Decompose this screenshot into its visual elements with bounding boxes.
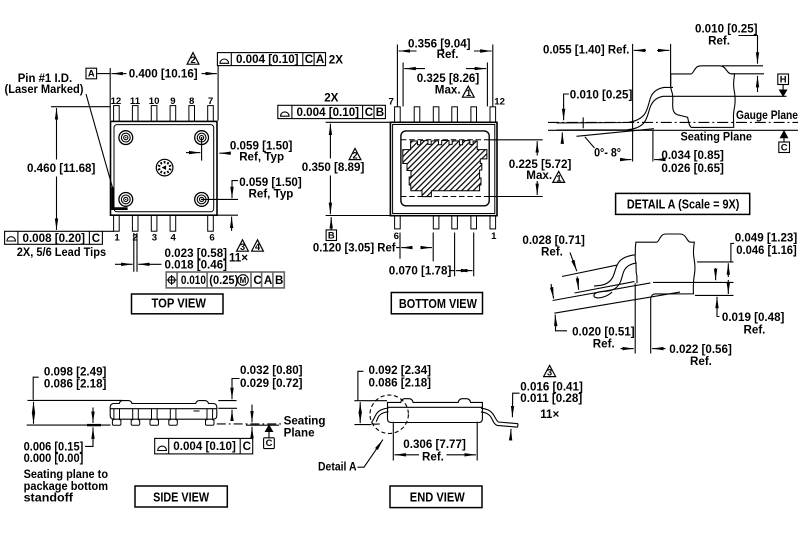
- svg-text:Detail A: Detail A: [318, 461, 357, 474]
- dim 0.325: extension lines: [403, 63, 487, 107]
- dim 0.356: extension lines: [397, 45, 492, 107]
- side view top extension line left: [28, 399, 124, 401]
- svg-text:2: 2: [352, 151, 357, 161]
- FCF position tolerance frame: [166, 272, 284, 288]
- svg-text:2X: 2X: [329, 53, 343, 66]
- svg-text:1: 1: [114, 233, 120, 244]
- top view body outline: [111, 121, 218, 215]
- hatched die cavity blob: [403, 141, 487, 197]
- svg-text:A: A: [88, 68, 95, 79]
- svg-text:0.049 [1.23]: 0.049 [1.23]: [735, 231, 798, 244]
- svg-text:M: M: [240, 276, 247, 285]
- svg-text:0.000 [0.00]: 0.000 [0.00]: [24, 452, 84, 465]
- 0.098/0.086 bracket: [33, 377, 39, 399]
- leader from laser marked text to pin1 corner: [86, 94, 113, 189]
- top view inner rounded outline: [114, 125, 214, 212]
- svg-text:SIDE VIEW: SIDE VIEW: [153, 490, 209, 504]
- dim 0.010 gauge-seating: bracket: [564, 94, 569, 106]
- 0.028 dim arrows: [577, 277, 578, 290]
- bottom pins row (1,2,3,4,6): [114, 215, 214, 231]
- svg-text:3: 3: [152, 233, 157, 244]
- svg-text:0°- 8°: 0°- 8°: [594, 146, 621, 159]
- second detail gull lead lower line: [602, 263, 637, 292]
- detail A lead upper surface: [557, 87, 673, 123]
- svg-text:Seating plane to: Seating plane to: [24, 468, 108, 481]
- svg-text:DETAIL A (Scale = 9X): DETAIL A (Scale = 9X): [627, 198, 740, 212]
- svg-text:C: C: [92, 232, 101, 245]
- svg-text:0.098 [2.49]: 0.098 [2.49]: [44, 365, 107, 378]
- svg-text:C: C: [781, 141, 788, 152]
- datum A box: [86, 68, 97, 79]
- detail A body outline: [671, 66, 735, 128]
- svg-text:C: C: [243, 440, 252, 453]
- svg-text:10: 10: [149, 96, 160, 107]
- svg-text:6: 6: [209, 233, 214, 244]
- end view body outline: [388, 399, 483, 423]
- mounting circle top-right: [195, 131, 209, 145]
- second detail body outline: [635, 234, 695, 298]
- end view left lead: [372, 408, 389, 424]
- dim lead width 0.023/0.018: extension lines: [115, 233, 162, 272]
- svg-text:7: 7: [389, 97, 394, 108]
- svg-text:6: 6: [394, 231, 399, 242]
- svg-text:2X, 5/6 Lead Tips: 2X, 5/6 Lead Tips: [17, 246, 106, 259]
- svg-text:0.018 [0.46]: 0.018 [0.46]: [165, 258, 228, 271]
- svg-text:Ref.: Ref.: [744, 324, 766, 337]
- svg-text:0.070 [1.78]: 0.070 [1.78]: [389, 265, 452, 278]
- second detail foot loop: [594, 292, 612, 298]
- 0.020 dim arrows: [551, 284, 554, 299]
- Detail A callout leader: [358, 440, 383, 468]
- flag note 1 (0.225): [553, 171, 565, 182]
- svg-text:A: A: [316, 53, 325, 66]
- 0.028 dim leader: [570, 253, 577, 272]
- second detail vertical lead: [634, 283, 636, 353]
- dim 0.070: extension lines: [449, 233, 474, 277]
- gauge plane dash-dot line: [548, 121, 798, 123]
- pin numbers top: [111, 96, 214, 107]
- svg-text:7: 7: [208, 96, 213, 107]
- position symbol: [167, 275, 249, 286]
- svg-text:0.350 [8.89]: 0.350 [8.89]: [302, 161, 365, 174]
- svg-text:(0.25): (0.25): [209, 274, 238, 287]
- svg-text:TOP VIEW: TOP VIEW: [151, 297, 206, 311]
- dim 0.460 dimension line with arrows: [56, 108, 58, 159]
- right ext line C: [695, 294, 734, 296]
- dim 0.055: extension lines: [632, 44, 634, 162]
- svg-text:standoff: standoff: [24, 492, 74, 505]
- flag note 2 (top view): [187, 53, 199, 65]
- svg-text:11: 11: [130, 96, 141, 107]
- svg-text:11×: 11×: [540, 408, 559, 421]
- svg-text:B: B: [376, 106, 384, 119]
- svg-text:8: 8: [189, 96, 195, 107]
- svg-text:Ref.: Ref.: [690, 355, 712, 368]
- mounting circle top-left: [119, 131, 133, 145]
- svg-text:0.029 [0.72]: 0.029 [0.72]: [240, 377, 303, 390]
- 0.032/0.029 ext lines right: [218, 400, 236, 402]
- FCF left: frame (0.004 C B): [278, 105, 386, 118]
- end view right lead: [481, 408, 518, 424]
- body bottom step line: [653, 281, 734, 283]
- svg-text:C: C: [266, 437, 273, 448]
- 0.016/0.011 leader and arrows: [512, 393, 519, 417]
- angle vertex tick: [582, 117, 584, 128]
- datum B stem: [330, 217, 332, 230]
- svg-text:Seating Plane: Seating Plane: [681, 131, 753, 144]
- tilted line T4 tilted seating: [554, 292, 680, 313]
- svg-text:Ref, Typ: Ref, Typ: [239, 151, 284, 164]
- svg-text:1: 1: [491, 231, 497, 242]
- svg-text:Max.: Max.: [526, 169, 552, 182]
- svg-text:END VIEW: END VIEW: [410, 491, 465, 505]
- BOTTOM VIEW label box: [391, 293, 482, 314]
- lead tip line to pin1: [102, 230, 114, 232]
- svg-text:3: 3: [240, 242, 245, 252]
- side view body outline: [110, 401, 217, 420]
- svg-text:4: 4: [171, 233, 177, 244]
- svg-text:0.120 [3.05] Ref: 0.120 [3.05] Ref: [313, 242, 396, 255]
- bottom view body outline: [390, 122, 497, 215]
- svg-text:1: 1: [556, 173, 561, 183]
- svg-text:9: 9: [170, 96, 175, 107]
- svg-text:2: 2: [190, 55, 195, 65]
- svg-text:Ref.: Ref.: [593, 338, 615, 351]
- 0.092/0.086 bracket: [358, 371, 364, 400]
- svg-text:11×: 11×: [229, 252, 248, 265]
- svg-text:0.055 [1.40] Ref.: 0.055 [1.40] Ref.: [543, 43, 630, 56]
- datum C box and triangle: [781, 131, 788, 138]
- leader for 0-8 text: [585, 137, 595, 148]
- FCF side view frame: [155, 438, 253, 454]
- svg-text:(Laser Marked): (Laser Marked): [5, 83, 84, 96]
- dim 0.460 left: top extension line: [51, 107, 110, 230]
- pin labels bottom view: [389, 97, 505, 243]
- svg-text:Max.: Max.: [435, 84, 461, 97]
- svg-text:A: A: [264, 274, 273, 287]
- svg-text:Ref, Typ: Ref, Typ: [249, 187, 294, 200]
- dim 0.120: extension lines: [396, 233, 433, 262]
- side view leads: [112, 409, 214, 426]
- svg-text:Gauge Plane: Gauge Plane: [736, 109, 798, 122]
- svg-text:0.086 [2.18]: 0.086 [2.18]: [369, 377, 432, 390]
- dim 0.225 right: extension lines: [489, 140, 543, 197]
- flag note 3: [237, 240, 249, 251]
- 0.098/0.086 dim arrows: [33, 402, 35, 411]
- center laser mark: [156, 159, 173, 176]
- DETAIL A label box: [616, 193, 750, 214]
- dim 0.034/0.026 foot: ext line right: [652, 131, 654, 162]
- svg-text:0.004 [0.10]: 0.004 [0.10]: [297, 106, 360, 119]
- flag note 1 (0.325): [462, 86, 474, 97]
- pin numbers bottom: [114, 233, 214, 244]
- svg-text:0.046 [1.16]: 0.046 [1.16]: [736, 244, 797, 257]
- dim 0.400: extension lines: [86, 66, 218, 121]
- end view top ext line: [354, 400, 387, 402]
- svg-text:0.400 [10.16]: 0.400 [10.16]: [129, 68, 198, 81]
- top pins row (12..7): [114, 106, 214, 122]
- svg-text:C: C: [365, 106, 374, 119]
- 0.092/0.086 dim arrows: [359, 402, 361, 411]
- end view seating ext line: [354, 424, 371, 426]
- END VIEW label box: [390, 486, 482, 508]
- standoff arrows at seating: [92, 408, 94, 423]
- svg-text:0.010: 0.010: [181, 274, 206, 287]
- svg-text:0.019 [0.48]: 0.019 [0.48]: [722, 311, 785, 324]
- svg-text:Ref.: Ref.: [437, 48, 459, 61]
- top pins row (7..12): [395, 107, 496, 123]
- svg-text:C: C: [253, 274, 262, 287]
- svg-text:12: 12: [111, 96, 122, 107]
- end view mold line: [388, 406, 483, 408]
- cavity dashed line top: [401, 139, 489, 141]
- flag note 3 (end view leads): [544, 365, 556, 376]
- svg-text:Seating: Seating: [284, 414, 326, 427]
- svg-text:Ref.: Ref.: [708, 34, 730, 47]
- side view mold line: [110, 408, 217, 410]
- detail A lead lower surface: [557, 96, 787, 130]
- svg-text:0.026 [0.65]: 0.026 [0.65]: [661, 162, 724, 175]
- svg-text:0.004 [0.10]: 0.004 [0.10]: [236, 53, 299, 66]
- svg-text:4: 4: [255, 242, 261, 252]
- bottom pins row (6..1): [395, 216, 496, 229]
- tilted line T3: [553, 283, 651, 301]
- datum H box and triangle: [778, 74, 789, 85]
- right ext line A: [697, 261, 734, 263]
- bottom view inner outline: [393, 125, 495, 214]
- svg-text:0.306 [7.77]: 0.306 [7.77]: [403, 438, 466, 451]
- tilted foot line 0-8 deg: [577, 129, 655, 137]
- svg-text:0.004 [0.10]: 0.004 [0.10]: [173, 440, 236, 453]
- dim 0.350 left: extension lines: [326, 122, 391, 240]
- 0.019 dim arrows: [715, 268, 717, 280]
- seating flatness arrows: [251, 405, 253, 423]
- 0.049/0.046 dim arrows: [727, 263, 729, 277]
- dim 0.400 arrows: [111, 73, 126, 75]
- svg-text:Ref.: Ref.: [422, 451, 444, 464]
- 0.306 dim ext lines: [392, 422, 394, 461]
- svg-text:0.092 [2.34]: 0.092 [2.34]: [369, 364, 432, 377]
- svg-text:H: H: [780, 73, 787, 84]
- pin 1 ID corner mark: [113, 187, 128, 208]
- svg-text:Ref.: Ref.: [541, 246, 563, 259]
- svg-text:B: B: [275, 274, 283, 287]
- svg-text:Plane: Plane: [284, 426, 315, 439]
- flag note 2 (0.350): [349, 148, 361, 159]
- seating dash-dot right: [217, 423, 283, 425]
- cavity rounded outline: [401, 131, 489, 206]
- datum C side view: [266, 425, 273, 431]
- second detail gull lead upper line: [594, 255, 635, 286]
- dim 0.059 #1 (top right circle): [186, 138, 230, 161]
- svg-text:B: B: [328, 229, 335, 240]
- seating plane line: [548, 129, 798, 131]
- svg-text:2X: 2X: [324, 91, 338, 104]
- svg-text:3: 3: [547, 368, 552, 378]
- svg-text:1: 1: [466, 88, 471, 98]
- svg-text:0.460 [11.68]: 0.460 [11.68]: [27, 162, 95, 175]
- mounting circle bottom-right: [195, 193, 209, 207]
- dim 0.059 #2 (bottom right circle): [202, 181, 238, 231]
- tilted line T2 foot top ext: [575, 282, 635, 293]
- TOP VIEW label box: [132, 294, 224, 314]
- flag note 4: [252, 240, 264, 251]
- svg-text:0.086 [2.18]: 0.086 [2.18]: [44, 378, 107, 391]
- FCF top: frame (0.004 C A): [217, 53, 325, 66]
- mounting circle bottom-left: [119, 193, 133, 207]
- svg-text:12: 12: [494, 97, 505, 108]
- svg-text:0.008 [0.20]: 0.008 [0.20]: [23, 232, 86, 245]
- svg-text:C: C: [305, 53, 314, 66]
- SIDE VIEW label box: [135, 486, 227, 507]
- svg-text:0.011 [0.28]: 0.011 [0.28]: [520, 392, 582, 405]
- svg-text:0.032 [0.80]: 0.032 [0.80]: [240, 364, 303, 377]
- svg-text:0.034 [0.85]: 0.034 [0.85]: [661, 149, 724, 162]
- datum A connector: [97, 73, 111, 75]
- 0.022 dim arrows: [621, 348, 634, 350]
- tilted line T1 lead top ext: [562, 265, 617, 276]
- side view seating line left: [27, 424, 111, 426]
- svg-text:BOTTOM VIEW: BOTTOM VIEW: [399, 297, 477, 311]
- 0.032/0.029 bracket and arrows: [232, 379, 240, 393]
- detail A dashed circle: [370, 395, 408, 433]
- dim 0.010 Ref top: ext lines: [722, 65, 763, 67]
- FCF lead tips: frame: [5, 231, 114, 244]
- cavity dashed line bottom: [401, 196, 489, 198]
- svg-text:0.010 [0.25]: 0.010 [0.25]: [570, 88, 633, 101]
